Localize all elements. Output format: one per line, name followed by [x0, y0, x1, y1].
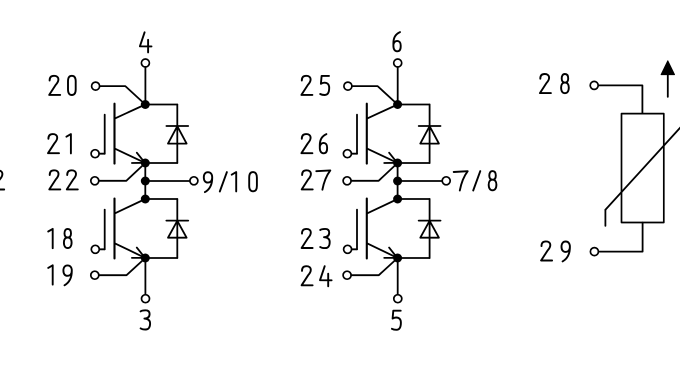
wire thermistor R1 bottom to pin 29	[599, 223, 643, 252]
wire pin 25 auxiliary collector to collector node	[352, 86, 398, 104]
terminal pin 25 (open circle)	[344, 82, 352, 90]
junction: emitter node of T1	[141, 159, 150, 168]
transistor T4 (bottom IGBT) channel bar	[366, 199, 368, 259]
transistor T3 emitter lead with arrow	[367, 149, 397, 163]
transistor T2 collector lead	[115, 199, 145, 213]
junction: AC output node pin 9/10	[141, 177, 150, 186]
wire pin 24 auxiliary emitter to emitter node of T4	[351, 258, 397, 275]
wire pin 23 to gate bar of T4	[352, 248, 357, 250]
transistor T1 emitter lead with arrow	[115, 149, 145, 163]
pin label 21	[48, 134, 71, 153]
transistor T3 gate bar	[356, 115, 358, 154]
terminal pin 19 (open circle)	[91, 271, 99, 279]
terminal pin 3 (open circle)	[142, 295, 150, 303]
pin label 9/10	[204, 172, 257, 192]
wire diode D2 anode to emitter node of T2	[145, 257, 177, 259]
junction: collector node of T2	[141, 195, 150, 204]
terminal pin 23 (gate of T4, open circle)	[344, 245, 352, 253]
transistor T4 emitter lead with arrow	[367, 243, 397, 257]
terminal pin 20 (open circle)	[92, 82, 100, 90]
terminal pin 7/8 (open circle)	[442, 177, 450, 185]
thermistor R1 (NTC) body rectangle	[622, 114, 664, 223]
pin label 3	[141, 310, 151, 329]
transistor T3 (top IGBT) channel bar	[366, 104, 368, 164]
transistor T1 (top IGBT) channel bar	[113, 104, 115, 164]
junction: AC output node pin 7/8	[393, 177, 402, 186]
pin label 7/8	[454, 171, 497, 190]
terminal pin 27 (open circle)	[343, 177, 351, 185]
wire diode D1 anode to emitter node	[145, 162, 177, 164]
terminal pin 29 (open circle)	[590, 248, 598, 256]
terminal pin 28 (open circle)	[590, 81, 598, 89]
diode D3 (freewheel, top)	[419, 105, 441, 164]
pin label 29	[541, 241, 570, 261]
temperature arrow (up, filled head)	[667, 74, 669, 97]
terminal pin 26 (gate of T3, open circle)	[343, 150, 351, 158]
diode D2 (freewheel, bottom)	[166, 199, 188, 258]
wire collector node to diode D3 cathode	[398, 104, 430, 106]
junction: emitter node of T4	[393, 254, 402, 263]
transistor T3 collector lead	[367, 105, 397, 119]
pin label 24	[302, 266, 332, 286]
thermistor R1 characteristic diagonal stroke	[605, 127, 680, 210]
wire collector node of T4 to diode D4 cathode	[398, 198, 430, 200]
wire pin 21 to gate bar of T1	[99, 153, 105, 155]
junction: collector node of T3 / pin 6	[393, 100, 402, 109]
transistor T2 (bottom IGBT) channel bar	[113, 199, 115, 259]
terminal pin 6 (open circle)	[394, 59, 402, 67]
pin label 27	[302, 170, 331, 189]
junction: collector node of T4	[393, 195, 402, 204]
wire AC node to terminal pin 9/10	[145, 180, 190, 182]
wire emitter node of T2 to terminal pin 3	[144, 258, 146, 295]
terminal pin 4 (open circle)	[141, 59, 149, 67]
wire pin 22 auxiliary emitter to emitter node of T1	[99, 163, 145, 181]
wire collector node to diode D1 cathode	[145, 104, 177, 106]
junction: emitter node of T3	[393, 159, 402, 168]
wire AC node to terminal pin 7/8	[398, 180, 443, 182]
wire pin 4 to collector node of T1	[144, 67, 146, 105]
pin label 28	[540, 74, 569, 93]
pin label 5	[392, 311, 401, 330]
wire pin 20 auxiliary collector to collector node	[100, 86, 146, 104]
terminal pin 22 (open circle)	[91, 177, 99, 185]
pin label 6	[393, 32, 400, 51]
wire pin 28 to thermistor R1 top	[598, 85, 642, 113]
wire emitter node of T3 to collector node of T4	[397, 163, 399, 199]
wire collector node of T2 to diode D2 cathode	[145, 198, 177, 200]
pin label 4	[140, 32, 152, 52]
pin label 19	[48, 265, 72, 285]
diode D1 (freewheel, top)	[166, 105, 188, 164]
wire pin 27 auxiliary emitter to emitter node of T3	[351, 163, 397, 181]
wire pin 6 to collector node of T3	[397, 67, 399, 105]
diode D4 (freewheel, bottom)	[419, 199, 441, 258]
wire diode D3 anode to emitter node	[398, 162, 430, 164]
pin label 23	[302, 229, 330, 248]
thermistor R1 diagonal foot	[604, 210, 606, 226]
transistor T2 emitter lead with arrow	[115, 243, 145, 257]
transistor T4 gate bar	[356, 210, 358, 250]
wire diode D4 anode to emitter node of T4	[398, 257, 430, 259]
junction: collector node of T1 / pin 4	[141, 100, 150, 109]
pin label 25	[301, 76, 329, 95]
terminal pin 5 (open circle)	[394, 295, 402, 303]
transistor T1 collector lead	[115, 105, 145, 119]
wire emitter node of T4 to terminal pin 5	[397, 258, 399, 295]
wire pin 26 to gate bar of T3	[352, 153, 358, 155]
terminal pin 9/10 (open circle)	[190, 177, 198, 185]
terminal pin 21 (gate of T1, open circle)	[91, 150, 99, 158]
terminal pin 18 (gate of T2, open circle)	[91, 245, 99, 253]
transistor T4 collector lead	[367, 199, 397, 213]
transistor T2 gate bar	[104, 210, 106, 250]
wire pin 18 to gate bar of T2	[99, 248, 104, 250]
pin label 18	[48, 229, 71, 248]
pin label 26	[301, 134, 327, 153]
wire pin 19 auxiliary emitter to emitter node of T2	[99, 258, 145, 275]
junction: emitter node of T2	[141, 254, 150, 263]
pin label 20	[49, 76, 75, 95]
wire emitter node of T1 to collector node of T2	[144, 163, 146, 199]
transistor T1 gate bar	[104, 115, 106, 154]
terminal pin 24 (open circle)	[343, 271, 351, 279]
pin label 22	[49, 170, 77, 189]
pin label 2 (cropped at left edge)	[0, 170, 4, 189]
